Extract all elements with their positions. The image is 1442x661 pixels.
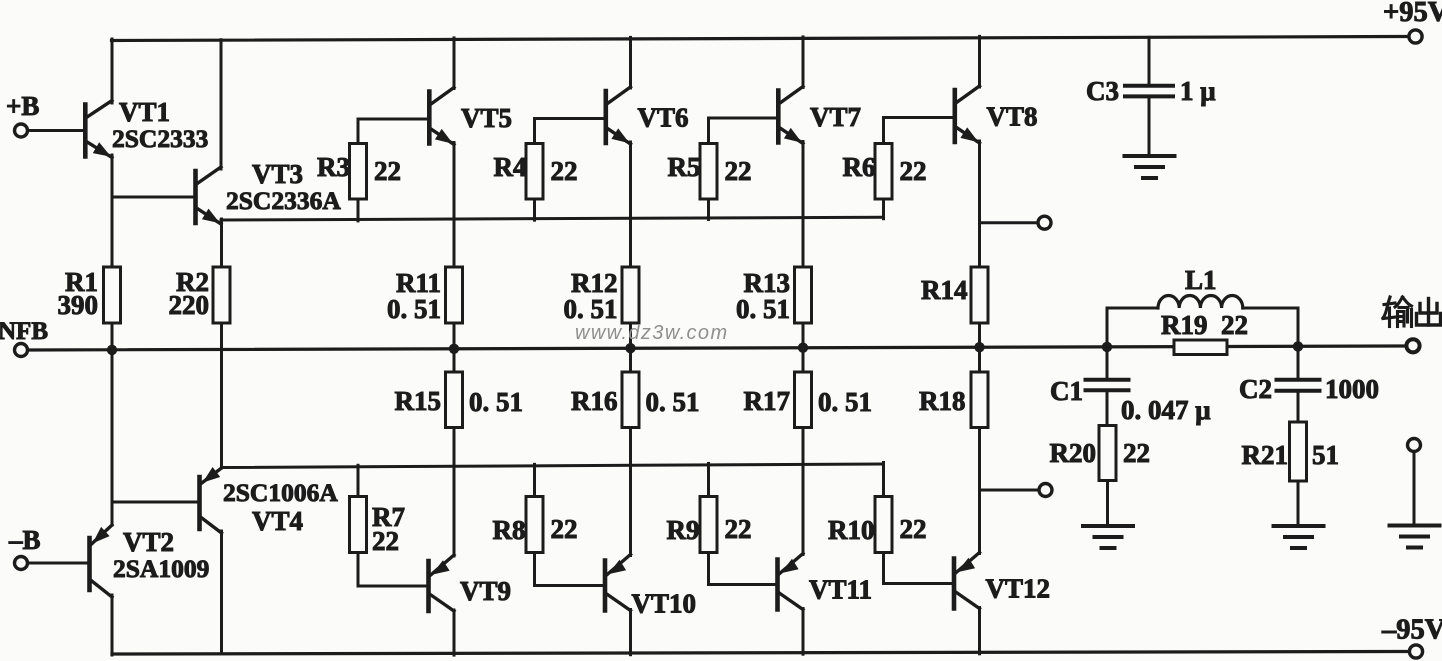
wire +B to VT1 base xyxy=(28,129,84,132)
wire R5 to drive bus xyxy=(707,199,710,219)
svg-text:www.dz3w.com: www.dz3w.com xyxy=(575,322,729,344)
wire R7 to VT9 base xyxy=(358,553,428,587)
wire VT9 collector to bottom rail xyxy=(453,610,456,655)
ground (R20) xyxy=(1083,526,1133,548)
wire VT4 base tap xyxy=(112,501,197,504)
wire R15 to VT9 emitter xyxy=(453,428,456,557)
wire ground terminal lead xyxy=(1413,452,1416,525)
wire NFB output bus (mid rail) xyxy=(28,346,1408,350)
wire C3 to ground xyxy=(1148,98,1151,155)
wire R16 to VT10 emitter xyxy=(629,428,632,556)
wire VT1 collector to top rail xyxy=(111,39,114,103)
resistor R21 51 xyxy=(1242,422,1340,481)
wire VT1 emitter vertical xyxy=(111,155,114,268)
wire VT6 collector to top rail xyxy=(629,37,632,88)
svg-text:–95V: –95V xyxy=(1381,615,1442,646)
svg-text:R17: R17 xyxy=(744,386,791,416)
ground (R21) xyxy=(1274,526,1324,548)
svg-text:C3: C3 xyxy=(1086,76,1119,106)
node junction L1/C2/output bus xyxy=(1293,341,1303,351)
wire VT11 collector to bottom rail xyxy=(802,609,805,655)
transistor VT4 2SC1006A xyxy=(200,467,339,536)
wire R1 to output bus xyxy=(111,323,114,351)
wire +95V top power rail xyxy=(112,37,1410,41)
wire R3 to drive bus xyxy=(357,199,360,221)
terminal NFB input xyxy=(0,318,48,357)
transistor VT11 xyxy=(778,554,873,610)
wire R13 to output bus xyxy=(802,323,805,350)
node junction L1/C1/output bus xyxy=(1102,342,1112,352)
transistor VT9 xyxy=(429,555,512,611)
terminal +B xyxy=(6,91,39,137)
transistor VT2 2SA1009 xyxy=(90,525,210,597)
resistor R17 0.51 xyxy=(744,348,873,428)
wire VT6 emitter vertical xyxy=(629,142,632,268)
svg-text:0. 047 μ: 0. 047 μ xyxy=(1121,395,1211,425)
resistor R12 0.51 xyxy=(564,267,640,324)
wire -95V bottom power rail xyxy=(112,652,1410,655)
svg-text:2SC2333: 2SC2333 xyxy=(112,124,208,153)
wire R18 to VT12 emitter xyxy=(978,428,981,554)
svg-text:0. 51: 0. 51 xyxy=(736,294,790,324)
svg-text:0. 51: 0. 51 xyxy=(818,387,872,417)
svg-text:22: 22 xyxy=(551,156,578,186)
wire VT7 emitter vertical xyxy=(802,142,805,268)
svg-text:VT12: VT12 xyxy=(986,574,1051,604)
svg-text:+B: +B xyxy=(6,91,39,121)
svg-text:C2: C2 xyxy=(1239,374,1272,404)
svg-text:C1: C1 xyxy=(1050,376,1083,406)
svg-text:VT11: VT11 xyxy=(809,575,872,605)
wire R21 to ground xyxy=(1297,481,1300,525)
svg-text:L1: L1 xyxy=(1185,265,1217,295)
wire R20 to ground xyxy=(1106,481,1109,526)
terminal 输出 (output) xyxy=(1406,339,1419,352)
svg-text:2SA1009: 2SA1009 xyxy=(113,554,209,583)
terminal -B xyxy=(8,525,41,570)
terminal +95V xyxy=(1383,0,1442,43)
svg-text:1000: 1000 xyxy=(1325,374,1379,404)
capacitor C3 1u xyxy=(1086,76,1216,106)
resistor R14 xyxy=(921,267,988,323)
transistor VT10 xyxy=(605,555,696,619)
node junction column 2 output bus xyxy=(625,343,635,353)
terminal upper drive sense xyxy=(1038,216,1051,229)
wire VT5 emitter vertical xyxy=(453,143,456,268)
wire R9 to VT11 base xyxy=(709,553,778,585)
resistor R8 22 (base) xyxy=(493,464,578,552)
wire R17 to VT11 emitter xyxy=(802,428,805,555)
svg-text:R16: R16 xyxy=(571,386,618,416)
resistor R13 0.51 xyxy=(736,267,812,324)
wire VT2 emitter vertical xyxy=(111,349,114,525)
resistor R7 22 (base) xyxy=(350,465,406,556)
wire R5 base wire xyxy=(709,117,778,120)
wire VT2 collector to bottom rail xyxy=(111,595,114,655)
svg-text:VT8: VT8 xyxy=(987,102,1038,132)
wire top rail to C3 xyxy=(1148,37,1151,84)
wire VT12 collector to bottom rail xyxy=(978,608,981,654)
svg-text:NFB: NFB xyxy=(0,318,48,345)
transistor VT6 xyxy=(606,87,689,144)
svg-text:22: 22 xyxy=(1123,438,1150,468)
svg-text:+95V: +95V xyxy=(1383,0,1442,28)
resistor R19 22 (series, parallel with L1) xyxy=(1161,310,1248,355)
wire VT5 collector to top rail xyxy=(453,38,456,89)
svg-text:0. 51: 0. 51 xyxy=(646,387,700,417)
svg-text:22: 22 xyxy=(551,514,578,544)
svg-text:VT1: VT1 xyxy=(119,97,170,127)
wire VT3 collector to top rail xyxy=(220,40,223,169)
svg-text:VT6: VT6 xyxy=(638,103,689,133)
wire VT1 emitter to VT3 base xyxy=(112,196,193,199)
transistor VT3 2SC2336A xyxy=(196,159,342,224)
terminal chassis ground xyxy=(1408,439,1421,452)
svg-text:R4: R4 xyxy=(494,152,527,182)
svg-text:390: 390 xyxy=(58,290,99,320)
svg-text:22: 22 xyxy=(900,514,927,544)
terminal -95V xyxy=(1381,615,1442,659)
svg-text:2SC1006A: 2SC1006A xyxy=(223,478,338,507)
svg-text:R10: R10 xyxy=(828,515,875,545)
svg-text:51: 51 xyxy=(1312,440,1339,470)
transistor VT7 xyxy=(778,87,861,144)
ground (C3) xyxy=(1125,156,1175,178)
node junction column 1 output bus xyxy=(449,344,459,354)
wire upper base-drive bus (VT3 emitter) xyxy=(221,217,884,220)
wire R6 to drive bus xyxy=(882,199,885,219)
svg-text:R18: R18 xyxy=(919,386,966,416)
inductor L1 xyxy=(1107,265,1298,308)
svg-text:VT9: VT9 xyxy=(460,576,511,606)
svg-text:R21: R21 xyxy=(1242,440,1289,470)
wire R4 to drive bus xyxy=(533,199,536,220)
svg-text:R19 22: R19 22 xyxy=(1161,310,1248,340)
wire VT4 collector to bottom rail xyxy=(220,531,223,654)
svg-text:1 μ: 1 μ xyxy=(1180,76,1216,106)
resistor R5 22 (base) xyxy=(668,118,752,199)
resistor R9 22 (base) xyxy=(667,463,752,552)
svg-text:R3: R3 xyxy=(317,152,350,182)
svg-text:R15: R15 xyxy=(395,386,442,416)
svg-text:VT10: VT10 xyxy=(632,589,697,619)
wire output bus to C1 xyxy=(1106,347,1109,378)
svg-text:VT4: VT4 xyxy=(252,506,303,536)
svg-text:22: 22 xyxy=(372,526,399,556)
svg-text:220: 220 xyxy=(169,290,210,320)
wire -B to VT2 base xyxy=(28,562,88,565)
wire R12 to output bus xyxy=(629,323,632,350)
node junction R1/output bus xyxy=(107,345,117,355)
resistor R1 390 xyxy=(58,267,121,323)
wire output bus to C2 xyxy=(1297,346,1300,377)
resistor R11 0.51 xyxy=(387,267,463,324)
transistor VT1 2SC2333 xyxy=(85,97,208,158)
wire R14 to output bus xyxy=(978,323,981,349)
wire R11 to output bus xyxy=(453,323,456,351)
transistor VT12 xyxy=(954,553,1050,609)
capacitor C2 1000 xyxy=(1239,374,1379,404)
wire R8 to VT10 base xyxy=(535,553,605,586)
svg-text:0. 51: 0. 51 xyxy=(469,387,523,417)
svg-text:22: 22 xyxy=(725,156,752,186)
svg-text:22: 22 xyxy=(374,156,401,186)
wire VT8 collector to top rail xyxy=(978,36,981,87)
svg-text:R14: R14 xyxy=(921,275,968,305)
wire R2 to VT4 emitter node (crosses output bus) xyxy=(220,323,223,468)
svg-text:VT3: VT3 xyxy=(252,159,303,189)
svg-text:R9: R9 xyxy=(667,515,700,545)
ground (output terminal) xyxy=(1390,526,1440,548)
label 输出 (output) xyxy=(1383,297,1441,327)
wire VT8 emitter vertical xyxy=(978,141,981,268)
wire R6 base wire xyxy=(884,116,954,119)
wire output bus up to L1 xyxy=(1106,308,1109,347)
node junction column 3 output bus xyxy=(798,343,808,353)
wire C1 to R20 xyxy=(1106,392,1109,426)
wire lower base-drive bus (VT4 emitter) xyxy=(222,464,884,468)
svg-text:–B: –B xyxy=(8,525,41,555)
svg-text:VT2: VT2 xyxy=(123,527,174,557)
svg-text:R5: R5 xyxy=(668,152,701,182)
svg-text:2SC2336A: 2SC2336A xyxy=(226,186,341,215)
svg-text:0. 51: 0. 51 xyxy=(387,294,441,324)
wire VT10 collector to bottom rail xyxy=(629,610,632,655)
resistor R16 0.51 xyxy=(571,348,700,427)
svg-text:22: 22 xyxy=(900,156,927,186)
resistor R18 xyxy=(919,347,988,427)
svg-text:VT7: VT7 xyxy=(810,102,861,132)
wire VT7 collector to top rail xyxy=(802,37,805,88)
wire R4 base wire xyxy=(535,117,605,120)
svg-text:R8: R8 xyxy=(493,515,526,545)
wire R3 base wire xyxy=(358,118,428,121)
transistor VT5 xyxy=(429,88,512,145)
svg-text:0. 51: 0. 51 xyxy=(564,294,618,324)
wire R10 to VT12 base xyxy=(884,553,954,584)
terminal lower drive sense xyxy=(1039,484,1052,497)
node junction column 4 output bus xyxy=(974,342,984,352)
resistor R10 22 (base) xyxy=(828,462,927,552)
wire L1 down to output bus xyxy=(1297,308,1300,347)
wire C2 to R21 xyxy=(1297,393,1300,422)
svg-text:22: 22 xyxy=(725,514,752,544)
resistor R6 22 (base) xyxy=(843,118,927,200)
resistor R4 22 (base) xyxy=(494,119,578,200)
wire VT8 emitter tap xyxy=(980,221,1038,224)
resistor R15 0.51 xyxy=(395,349,524,428)
svg-text:R6: R6 xyxy=(843,152,876,182)
watermark www.dz3w.com xyxy=(575,322,729,344)
resistor R3 22 (base) xyxy=(317,119,401,199)
svg-text:R20: R20 xyxy=(1050,438,1097,468)
resistor R2 220 xyxy=(169,219,231,323)
svg-text:VT5: VT5 xyxy=(461,103,512,133)
transistor VT8 xyxy=(955,86,1038,143)
resistor R20 22 xyxy=(1050,426,1151,481)
wire VT12 emitter tap xyxy=(980,489,1039,492)
capacitor C1 0.047u xyxy=(1050,376,1211,425)
